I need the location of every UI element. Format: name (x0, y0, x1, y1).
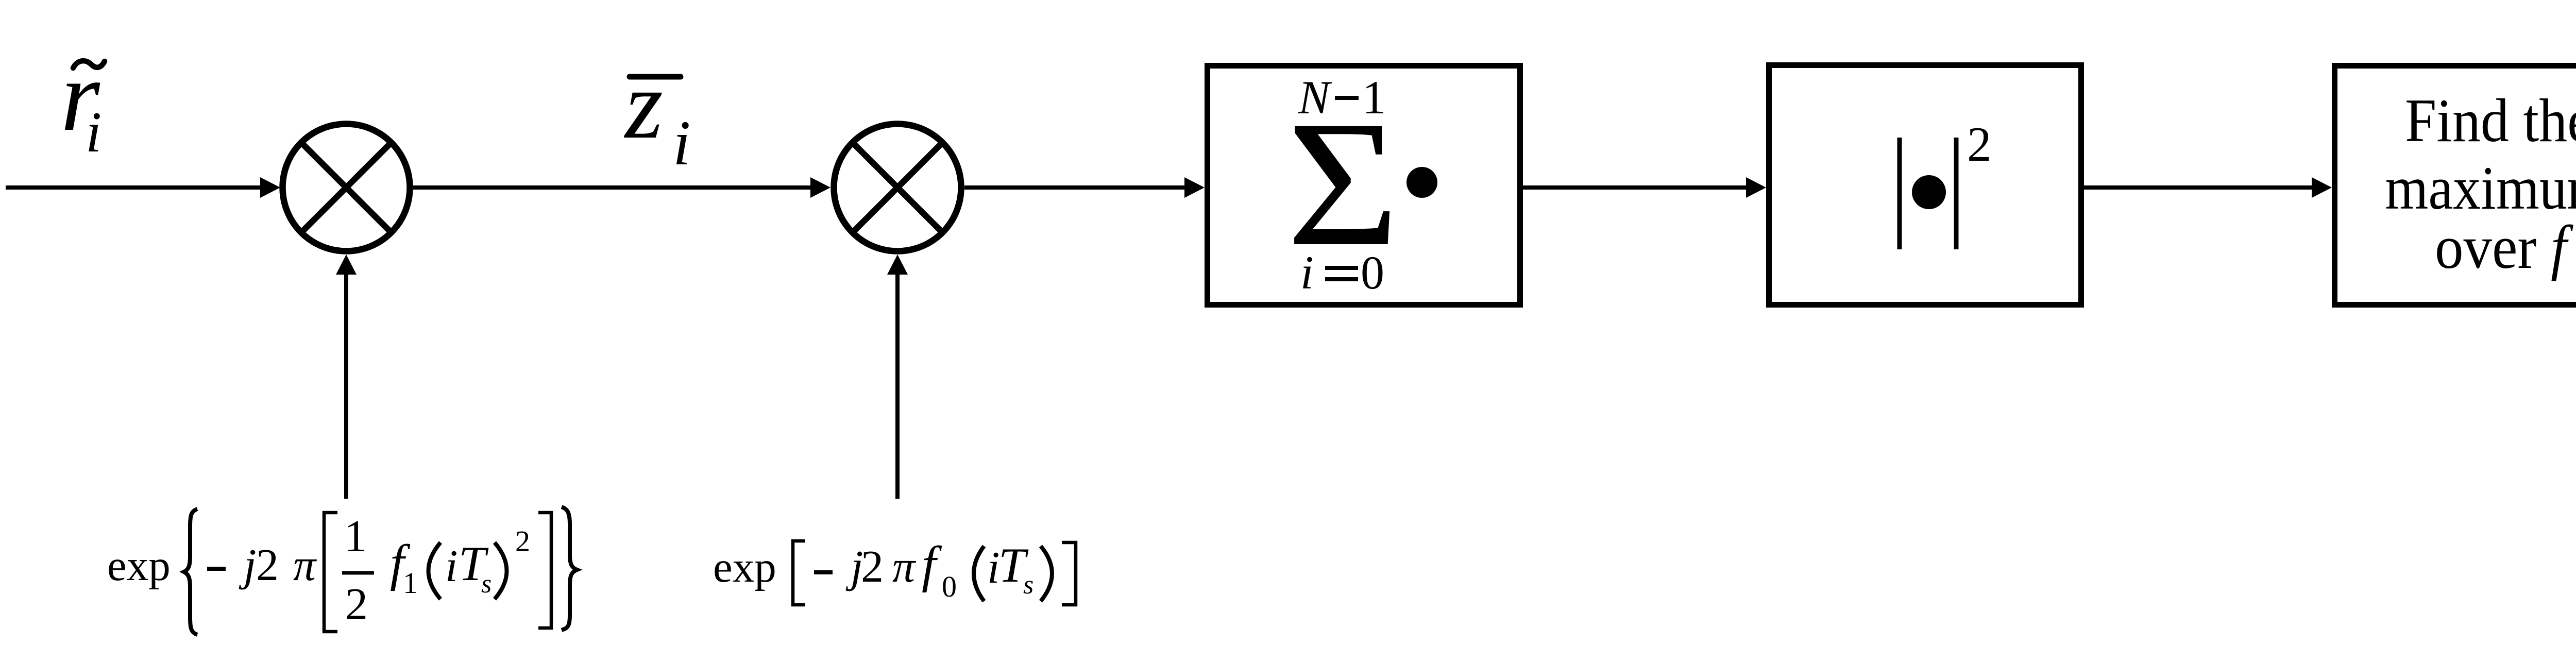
svg-text:exp: exp (107, 541, 171, 590)
multiplier M1 (circle with X) (283, 124, 410, 251)
summation block (1208, 66, 1520, 305)
chirp exponential label exp{-j2pi[1/2 f1 (iTs)^2]} (107, 507, 577, 635)
svg-text:2: 2 (345, 580, 368, 630)
svg-text:2: 2 (1967, 117, 1992, 172)
wire magnitude to maximum block (2084, 177, 2332, 198)
svg-text:z: z (623, 51, 663, 159)
svg-text:s: s (1023, 570, 1033, 600)
carrier exponential label exp[-j2pi f0 (iTs)] (713, 536, 1076, 605)
svg-text:0: 0 (1361, 246, 1384, 299)
svg-text:i: i (987, 543, 999, 593)
svg-text:over f: over f (2435, 213, 2574, 281)
svg-text:2: 2 (515, 524, 530, 558)
signal label z-bar_i (623, 51, 690, 178)
multiplier M2 (circle with X) (834, 124, 961, 251)
svg-text:1: 1 (403, 566, 418, 600)
svg-text:0: 0 (942, 570, 957, 603)
svg-text:Find the: Find the (2405, 86, 2576, 155)
svg-text:i: i (1300, 246, 1314, 299)
find-maximum block (2335, 66, 2576, 305)
carrier reference arrow into M2 (887, 254, 908, 499)
svg-text:i: i (445, 541, 457, 591)
svg-text:π: π (892, 542, 917, 592)
chirp reference arrow into M1 (336, 254, 357, 499)
svg-text:maximum: maximum (2385, 154, 2576, 222)
input wire into multiplier M1 (6, 177, 280, 198)
svg-text:i: i (673, 108, 690, 178)
wire M1 to M2 (413, 177, 831, 198)
wire M2 to summation block (964, 177, 1205, 198)
svg-text:1: 1 (344, 512, 367, 562)
magnitude-squared block (1769, 65, 2081, 305)
input signal label r-tilde_i (61, 41, 105, 164)
wire summation to magnitude block (1523, 177, 1766, 198)
svg-text:π: π (293, 540, 317, 590)
svg-text:s: s (481, 569, 492, 599)
svg-text:exp: exp (713, 543, 776, 591)
svg-text:i: i (86, 100, 101, 164)
svg-text:2: 2 (256, 540, 279, 590)
svg-text:2: 2 (861, 542, 884, 592)
